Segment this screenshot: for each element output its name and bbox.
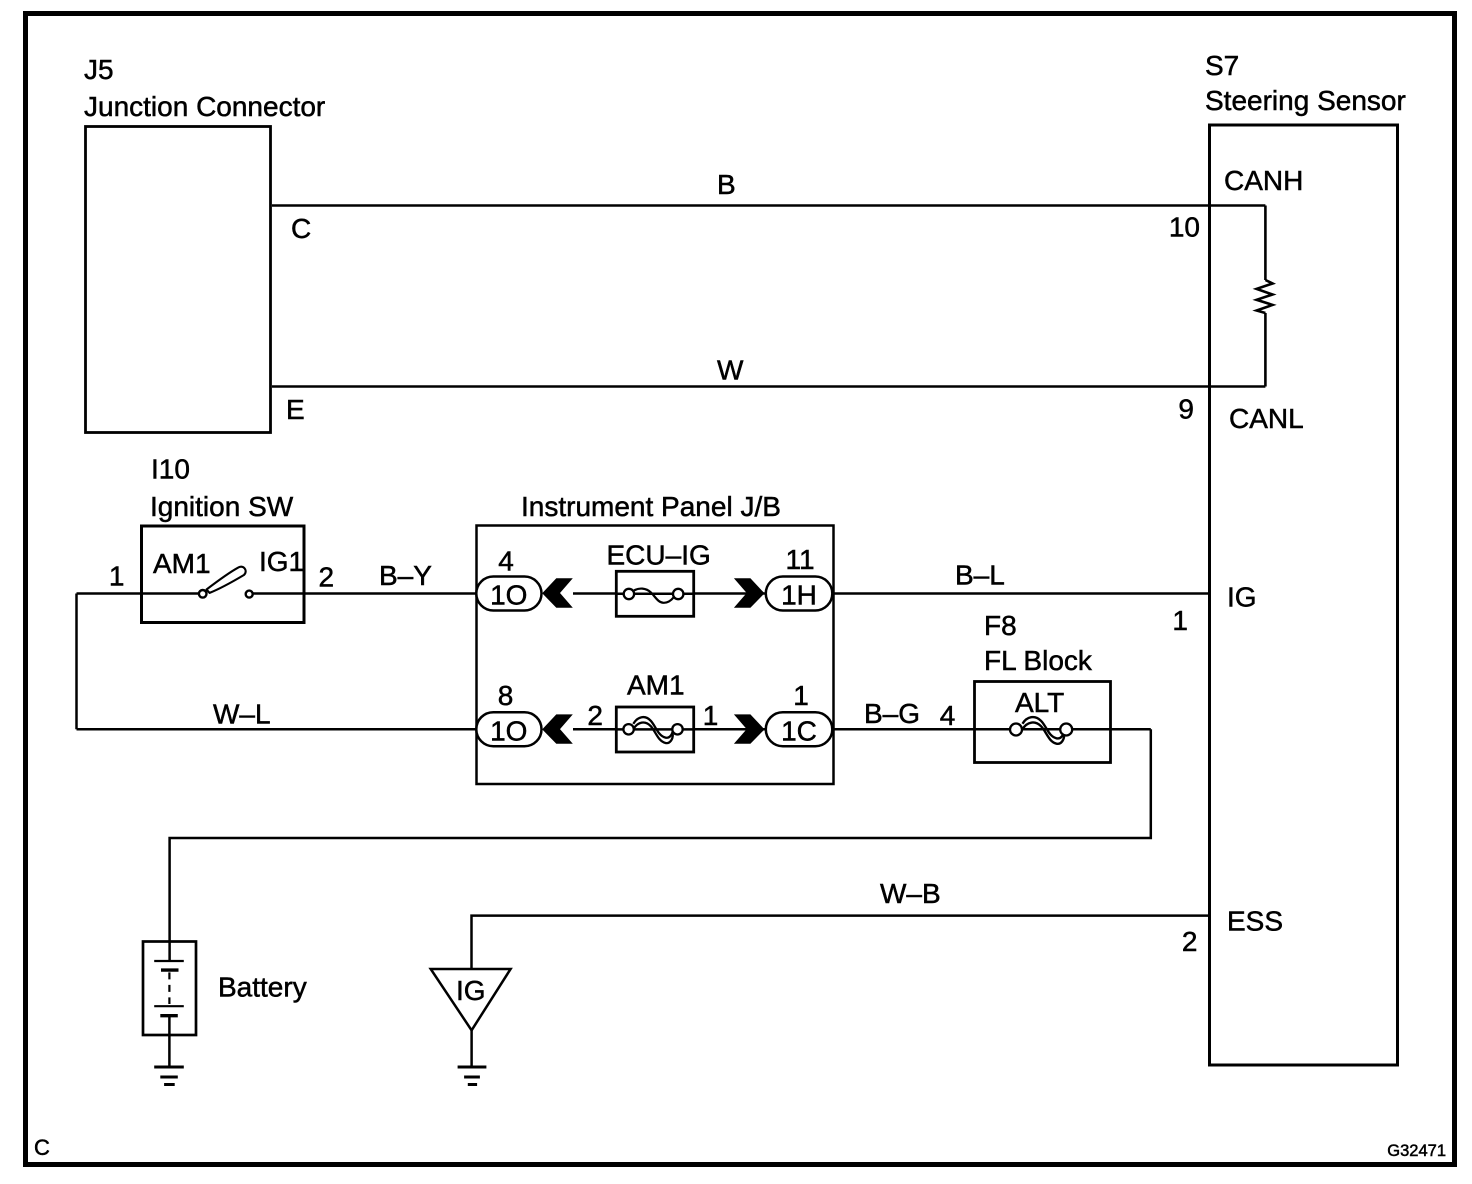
junction connector J5 box <box>86 127 271 433</box>
svg-text:CANL: CANL <box>1229 403 1304 434</box>
svg-text:4: 4 <box>498 546 514 577</box>
svg-text:1: 1 <box>793 680 809 711</box>
svg-text:W–L: W–L <box>213 699 271 730</box>
svg-text:Instrument Panel J/B: Instrument Panel J/B <box>521 491 781 522</box>
svg-text:B: B <box>717 169 736 200</box>
FL block F8 box <box>975 682 1111 763</box>
wire oval to fuse <box>573 592 616 595</box>
arrow right (top row) <box>734 578 765 607</box>
svg-text:Steering Sensor: Steering Sensor <box>1205 85 1406 116</box>
svg-text:4: 4 <box>940 700 956 731</box>
svg-text:B–G: B–G <box>864 698 920 729</box>
ground (IG) <box>458 1067 487 1085</box>
svg-text:B–L: B–L <box>955 560 1005 591</box>
fusible link ALT <box>1010 717 1072 744</box>
wire pin1 to switch <box>77 592 200 595</box>
svg-text:Ignition SW: Ignition SW <box>150 491 294 522</box>
connector 1H (pin 11) <box>766 577 833 611</box>
svg-text:ESS: ESS <box>1227 906 1283 937</box>
svg-text:1O: 1O <box>490 715 527 746</box>
svg-text:Battery: Battery <box>218 972 307 1003</box>
arrow left (top row) <box>542 578 573 607</box>
svg-text:9: 9 <box>1178 394 1194 425</box>
svg-text:I10: I10 <box>151 454 190 485</box>
wire left drop (pin1 down) <box>75 594 78 730</box>
svg-text:C: C <box>291 213 311 244</box>
ignition switch I10 box <box>142 526 305 623</box>
wire B-G (1C to FL block) <box>832 728 974 731</box>
steering sensor S7 label <box>1205 50 1406 116</box>
ignition switch I10 label <box>150 454 294 523</box>
svg-text:8: 8 <box>498 680 514 711</box>
switch lever <box>207 567 246 593</box>
wire B-L (1H to S7 IG) <box>832 592 1209 595</box>
fuse ECU-IG <box>616 571 693 616</box>
svg-text:Junction Connector: Junction Connector <box>84 91 325 122</box>
steering sensor S7 box <box>1210 125 1398 1065</box>
svg-text:E: E <box>286 394 305 425</box>
wire B (J5 pin C to S7 pin 10) <box>272 204 1265 207</box>
svg-text:2: 2 <box>1182 926 1198 957</box>
svg-text:CANH: CANH <box>1224 165 1303 196</box>
svg-text:S7: S7 <box>1205 50 1239 81</box>
resistor (terminating, inside S7) <box>1257 206 1273 387</box>
instrument panel J/B box <box>477 526 834 785</box>
svg-text:1H: 1H <box>781 580 817 611</box>
svg-text:1: 1 <box>1172 605 1188 636</box>
svg-text:1C: 1C <box>781 715 817 746</box>
svg-text:C: C <box>34 1135 50 1160</box>
svg-text:G32471: G32471 <box>1387 1142 1446 1160</box>
wire fuse to arrow <box>694 592 766 595</box>
ground (battery) <box>154 1067 184 1085</box>
wire W-L (to 1O pin 8) <box>77 728 477 731</box>
connector 1O (pin 8) <box>476 712 541 746</box>
IG ground triangle <box>431 969 511 1030</box>
svg-text:1O: 1O <box>490 580 527 611</box>
svg-text:IG: IG <box>1227 582 1257 613</box>
wire fusible link to arrow <box>694 728 766 731</box>
battery <box>143 941 196 1067</box>
wire switch to box edge <box>253 592 476 595</box>
svg-text:W–B: W–B <box>880 878 941 909</box>
connector 1C (pin 1) <box>766 712 833 746</box>
svg-text:ECU–IG: ECU–IG <box>607 540 711 571</box>
svg-text:AM1: AM1 <box>153 548 211 579</box>
svg-text:J5: J5 <box>84 54 114 85</box>
connector 1O (pin 4) <box>476 577 541 611</box>
svg-text:F8: F8 <box>984 610 1017 641</box>
svg-text:AM1: AM1 <box>627 670 685 701</box>
switch contact AM1 <box>199 590 207 598</box>
switch contact IG1 <box>246 591 253 598</box>
arrow left (bottom row) <box>542 714 573 743</box>
fusible link AM1 <box>616 707 693 752</box>
junction connector J5 label <box>84 54 325 122</box>
FL block F8 label <box>984 610 1093 676</box>
wire oval to fusible link <box>573 728 616 731</box>
svg-text:IG1: IG1 <box>259 546 304 577</box>
svg-text:FL Block: FL Block <box>984 645 1093 676</box>
arrow right (bottom row) <box>734 714 765 743</box>
svg-text:W: W <box>717 355 744 386</box>
svg-text:11: 11 <box>785 544 814 575</box>
svg-text:10: 10 <box>1169 212 1200 243</box>
wire through FL block <box>974 728 1151 731</box>
svg-text:2: 2 <box>587 700 603 731</box>
svg-text:1: 1 <box>109 561 125 592</box>
ground stem (IG) <box>470 1030 473 1066</box>
svg-text:1: 1 <box>703 700 719 731</box>
wire W-B (IG ground to S7 ESS) <box>472 916 1210 969</box>
svg-text:IG: IG <box>456 975 486 1006</box>
svg-text:2: 2 <box>319 562 335 593</box>
wire W (J5 pin E to S7 pin 9) <box>272 385 1265 388</box>
svg-text:B–Y: B–Y <box>379 560 432 591</box>
wire ALT down to battery feed <box>170 729 1151 940</box>
svg-text:ALT: ALT <box>1015 687 1064 718</box>
